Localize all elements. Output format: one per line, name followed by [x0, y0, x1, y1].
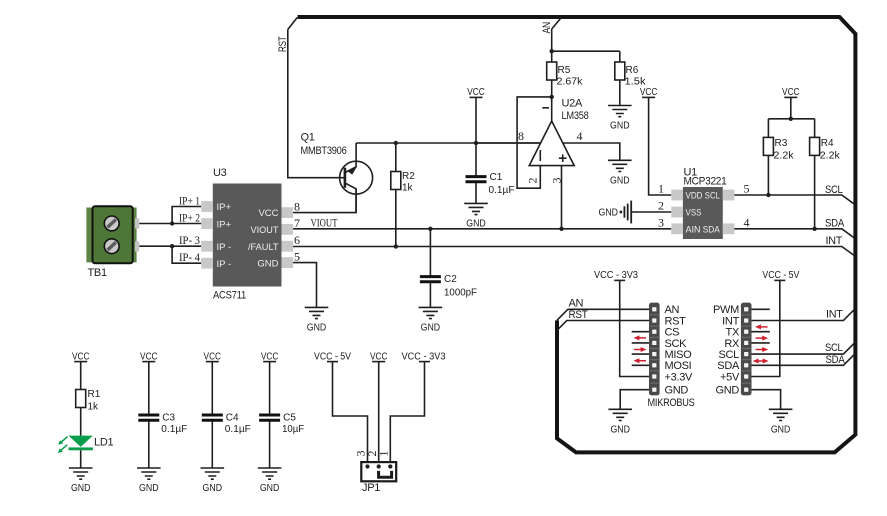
wire PWM stub [752, 308, 770, 310]
arrow RX (right) [756, 337, 765, 339]
node AN flag [552, 18, 562, 30]
svg-text:INT: INT [826, 309, 843, 321]
svg-text:2: 2 [658, 199, 664, 213]
pin 8 wire U2A [476, 142, 540, 144]
svg-text:JP1: JP1 [362, 482, 380, 494]
svg-text:VCC - 3V3: VCC - 3V3 [594, 270, 638, 281]
svg-text:R3: R3 [775, 138, 788, 149]
svg-text:C2: C2 [444, 274, 457, 285]
wire AN vertical [551, 29, 553, 51]
arrow SCK/MISO (right) [634, 349, 643, 351]
resistor R2 [395, 143, 397, 247]
svg-text:CS: CS [665, 327, 680, 339]
ground below C2 [419, 307, 443, 333]
svg-text:IP -: IP - [217, 242, 232, 253]
ground below C3 [137, 468, 161, 494]
svg-text:R5: R5 [558, 65, 571, 76]
mikroBUS right pin labels [713, 304, 740, 396]
svg-text:2: 2 [526, 178, 540, 184]
connector mikroBUS left column [649, 303, 660, 396]
resistor R1 [80, 362, 82, 436]
node junction C1/rail [474, 141, 478, 145]
power VCC above C1 [467, 87, 485, 98]
svg-text:R2: R2 [402, 171, 415, 182]
svg-text:2.2k: 2.2k [774, 151, 795, 162]
ground below C4 [201, 468, 225, 494]
op-amp U2A [529, 121, 574, 166]
power VCC above C4 [204, 351, 222, 362]
terminal block TB1 [86, 206, 139, 263]
IC U3 ACS711 [201, 184, 293, 287]
power VCC-5V above JP1 [314, 351, 351, 362]
wire SDA to border [752, 353, 856, 365]
svg-text:2.2k: 2.2k [820, 151, 841, 162]
svg-text:AN: AN [569, 297, 584, 309]
svg-text:AN: AN [665, 304, 680, 316]
svg-text:1k: 1k [402, 183, 414, 194]
wire +5V supply [752, 280, 780, 376]
resistor R6 [619, 51, 621, 105]
wire MOSI stub [632, 364, 649, 366]
ground below mikroBUS right [769, 409, 793, 435]
ground below U3 [305, 307, 329, 333]
ground at U2A pin4 [608, 160, 632, 186]
svg-text:VCC - 5V: VCC - 5V [314, 351, 351, 362]
svg-text:8: 8 [294, 200, 300, 214]
svg-text:LD1: LD1 [94, 436, 113, 448]
svg-text:1: 1 [377, 451, 391, 457]
node junction C2/VIOUT [428, 227, 432, 231]
svg-text:0.1µF: 0.1µF [489, 185, 515, 196]
power VCC to U1 [640, 87, 658, 98]
power VCC above C5 [261, 351, 279, 362]
svg-text:1.5k: 1.5k [625, 77, 647, 88]
power VCC above R3/R4 [782, 87, 800, 98]
svg-text:C4: C4 [226, 413, 239, 424]
wire RST to Q1 base [288, 30, 345, 178]
svg-text:R4: R4 [821, 138, 834, 149]
svg-text:VDD: VDD [686, 191, 703, 202]
svg-text:6: 6 [294, 233, 300, 247]
svg-text:5: 5 [744, 182, 750, 196]
svg-text:AIN: AIN [686, 224, 701, 235]
svg-text:1: 1 [658, 182, 664, 196]
wire U3 pin5 to ground [293, 263, 316, 308]
svg-text:MOSI: MOSI [665, 360, 692, 372]
wire RST to mikroBUS [557, 321, 649, 331]
resistor R5 [551, 51, 553, 97]
wire SCL net [734, 195, 854, 204]
wire TB1 to IP- pins [139, 246, 201, 263]
svg-text:VSS: VSS [686, 208, 702, 219]
svg-text:3: 3 [658, 215, 664, 229]
board outline bus [298, 17, 856, 452]
arrow MISO/MOSI (left) [637, 360, 646, 362]
svg-text:SCL: SCL [825, 184, 843, 196]
svg-text:VCC - 3V3: VCC - 3V3 [402, 351, 446, 362]
ground below C5 [258, 468, 282, 494]
svg-text:VIOUT: VIOUT [251, 225, 279, 236]
svg-text:4: 4 [744, 215, 750, 229]
svg-text:SCL: SCL [719, 349, 740, 361]
wire SCL to border [752, 342, 856, 354]
svg-text:IP -: IP - [217, 259, 232, 270]
wire INT to border [752, 309, 856, 321]
wire TX stub [752, 331, 770, 333]
wire /FAULT INT bus [293, 247, 854, 256]
wire VCC-5V to JP1 pin3 [333, 362, 368, 467]
ground below C1 [464, 203, 488, 229]
power VCC-5V above mikroBUS [762, 270, 799, 281]
svg-text:IP+ 2: IP+ 2 [179, 211, 200, 225]
arrow SCL (right) [756, 349, 765, 351]
wire TB1 to IP+ pins [139, 207, 201, 224]
wire Q1 emitter rail [356, 142, 540, 144]
svg-text:U2A: U2A [562, 98, 583, 110]
pin 4 wire U2A to ground [563, 143, 620, 160]
svg-text:1000pF: 1000pF [444, 288, 477, 299]
svg-text:RST: RST [569, 309, 589, 321]
capacitor C1 [475, 143, 477, 203]
svg-text:VCC - 5V: VCC - 5V [762, 270, 799, 281]
svg-text:3: 3 [550, 178, 564, 184]
svg-text:SCL: SCL [825, 342, 843, 354]
wire U2A output [551, 97, 553, 121]
wire SDA net [734, 229, 854, 238]
svg-text:IP- 3: IP- 3 [179, 233, 200, 247]
svg-text:TX: TX [726, 327, 740, 339]
pin 3 wire U2A [561, 166, 563, 229]
svg-text:LM358: LM358 [562, 110, 589, 122]
svg-text:GND: GND [257, 258, 278, 269]
svg-text:SDA: SDA [717, 360, 740, 372]
capacitor C4 [211, 362, 213, 468]
transistor Q1 MMBT3906 [340, 161, 373, 194]
svg-text:GND: GND [665, 385, 689, 397]
wire SCK stub [632, 342, 649, 344]
svg-text:7: 7 [294, 216, 300, 230]
wire VIOUT bus [293, 228, 671, 230]
wire MISO stub [632, 353, 649, 355]
power VCC-3V3 above JP1 [402, 351, 446, 362]
svg-text:GND: GND [599, 208, 619, 219]
svg-text:RST: RST [665, 315, 687, 327]
wire +3.3V supply [620, 280, 649, 376]
svg-text:IP+ 1: IP+ 1 [179, 194, 200, 208]
node junction AN/R5/R6 [550, 49, 554, 53]
resistor R3 [767, 155, 769, 195]
IC U1 MCP3221 [671, 187, 734, 239]
power VCC above C3 [140, 351, 158, 362]
svg-text:Q1: Q1 [301, 132, 315, 144]
ground flag at U1 VSS [599, 201, 672, 224]
svg-text:0.1µF: 0.1µF [161, 424, 187, 435]
node RST flag [288, 18, 297, 30]
LED LD1 [58, 436, 93, 453]
svg-text:SDA: SDA [826, 354, 846, 366]
ground below mikroBUS left [608, 409, 632, 435]
wire AN to mikroBUS [557, 309, 649, 320]
svg-text:SCK: SCK [665, 338, 688, 350]
svg-text:+5V: +5V [720, 371, 740, 383]
arrow SDA (both) [757, 360, 766, 362]
wire RX stub [752, 342, 770, 344]
svg-text:SDA: SDA [825, 217, 845, 229]
ground below R6 [608, 106, 632, 132]
svg-text:/FAULT: /FAULT [248, 242, 279, 253]
svg-text:IP+: IP+ [217, 202, 232, 213]
wire CS stub [632, 331, 649, 333]
mikroBUS left pin labels [665, 304, 694, 396]
svg-text:ACS711: ACS711 [213, 290, 246, 302]
svg-text:PWM: PWM [713, 304, 739, 316]
power VCC above JP1 [370, 351, 388, 362]
svg-text:C3: C3 [162, 413, 175, 424]
op-amp U2A output junction [550, 95, 554, 99]
svg-text:2.67k: 2.67k [557, 77, 584, 88]
wire U3 pin8 VCC to Q1 [293, 189, 356, 213]
svg-text:RX: RX [724, 338, 740, 350]
svg-text:TB1: TB1 [88, 267, 107, 279]
svg-text:SCL: SCL [705, 191, 720, 202]
arrow CS/SCK (left) [637, 337, 646, 339]
svg-text:8: 8 [518, 129, 524, 143]
resistor R4 [814, 155, 816, 228]
wire AN node horizontal to R6 [552, 50, 620, 52]
node junction U2A pin3/VIOUT [559, 227, 563, 231]
svg-text:MCP3221: MCP3221 [684, 176, 727, 188]
svg-text:R1: R1 [88, 389, 101, 400]
svg-text:C5: C5 [283, 413, 296, 424]
svg-text:IP+: IP+ [217, 219, 232, 230]
svg-text:0.1µF: 0.1µF [225, 424, 251, 435]
svg-text:U3: U3 [213, 167, 227, 179]
svg-text:10µF: 10µF [282, 424, 304, 435]
power VCC-3V3 above mikroBUS [594, 270, 638, 281]
arrow TX (left) [759, 326, 768, 328]
power VCC above R1 [72, 351, 90, 362]
wire mikroBUS right GND [752, 390, 781, 410]
svg-text:+3.3V: +3.3V [665, 371, 694, 383]
node junction R2//FAULT [394, 244, 398, 248]
svg-text:1k: 1k [88, 402, 100, 413]
node junction R2/rail [394, 141, 398, 145]
capacitor C5 [269, 362, 271, 468]
ground below LD1 [69, 468, 93, 494]
wire VCC-3V3 to JP1 pin1 [390, 362, 424, 467]
svg-text:R6: R6 [626, 65, 639, 76]
svg-text:MMBT3906: MMBT3906 [301, 145, 347, 157]
capacitor C3 [148, 362, 150, 468]
svg-text:5: 5 [294, 249, 300, 263]
wire mikroBUS left GND [620, 390, 649, 410]
capacitor C2 [429, 229, 431, 308]
wire VCC to JP1 pin2 [378, 362, 380, 467]
svg-text:GND: GND [715, 385, 739, 397]
connector JP1 [361, 462, 396, 481]
svg-text:MISO: MISO [665, 349, 693, 361]
svg-text:SDA: SDA [703, 224, 721, 235]
svg-text:MIKROBUS: MIKROBUS [648, 397, 695, 409]
connector mikroBUS right column [741, 303, 752, 396]
svg-text:VCC: VCC [258, 208, 278, 219]
svg-text:IP- 4: IP- 4 [179, 250, 200, 264]
wire feedback loop U2A [517, 97, 552, 188]
svg-text:C1: C1 [490, 172, 503, 183]
svg-text:INT: INT [826, 235, 843, 247]
svg-text:INT: INT [722, 315, 739, 327]
svg-text:4: 4 [577, 129, 583, 143]
svg-text:VIOUT: VIOUT [311, 216, 338, 230]
